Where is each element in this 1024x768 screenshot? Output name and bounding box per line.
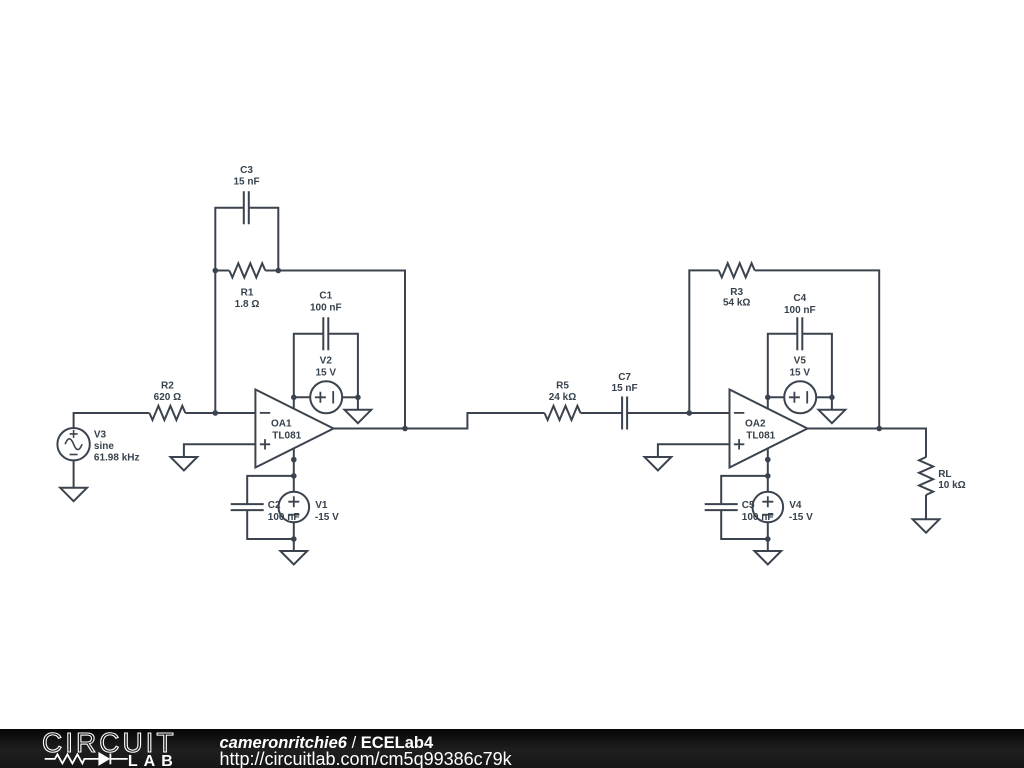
svg-text:C3: C3 [240, 165, 253, 176]
junction node V1 bottom [291, 536, 297, 542]
capacitor C7 [622, 397, 627, 430]
svg-text:24 kΩ: 24 kΩ [549, 392, 576, 403]
voltage source V2 [310, 381, 342, 413]
junction node C2 branch [291, 473, 297, 479]
ground at V3 [60, 488, 87, 501]
junction node OA2 V- stub [765, 457, 771, 463]
ground at V2 [345, 410, 372, 423]
OA2 inverting pin mark [734, 412, 744, 414]
wire C4 loop right [802, 334, 832, 398]
junction node V2 right [355, 395, 361, 401]
junction node V+ stub [291, 395, 297, 401]
label V3 sine 61.98 kHz [94, 429, 140, 463]
wire V2 left lead [294, 396, 310, 398]
junction node at R2 / feedback [213, 410, 219, 416]
resistor RL [919, 457, 933, 495]
ground at V5 [819, 410, 846, 423]
capacitor C1 [323, 317, 328, 350]
wire C7 to OA2 inverting input [627, 412, 729, 414]
capacitor C3 [244, 191, 249, 224]
svg-text:V4: V4 [789, 500, 802, 511]
svg-text:15 V: 15 V [316, 367, 337, 378]
wire V2 right lead [342, 396, 358, 398]
label OA1 TL081 [271, 418, 302, 441]
label V4 -15 V [789, 500, 813, 523]
wire C1 loop left [294, 334, 324, 398]
svg-text:C5: C5 [742, 500, 755, 511]
wire R3 feedback left vertical [689, 270, 718, 413]
svg-text:100 nF: 100 nF [742, 512, 774, 523]
svg-text:sine: sine [94, 441, 114, 452]
wire RL bottom lead [925, 495, 927, 520]
svg-text:100 nF: 100 nF [268, 512, 300, 523]
capacitor C2 [231, 504, 264, 510]
svg-text:TL081: TL081 [746, 430, 775, 441]
wire C5 top branch [721, 476, 768, 504]
wire C2 top branch [247, 476, 294, 504]
wire R5 to C7 [581, 412, 623, 414]
label R1 1.8 ohm [235, 287, 260, 310]
wire OA1 non-inverting input [184, 444, 256, 457]
junction node R1 left [213, 268, 219, 274]
OA1 non-inverting pin mark [260, 439, 270, 449]
wire V2 ground stub [357, 397, 359, 410]
wire V4 top lead [767, 476, 769, 492]
junction node V- stub [291, 457, 297, 463]
svg-text:OA1: OA1 [271, 418, 292, 429]
wire V1 top lead [293, 476, 295, 492]
label OA2 TL081 [745, 418, 776, 441]
wire C1 loop right [328, 334, 358, 398]
label R2 620 ohm [154, 381, 181, 404]
svg-text:61.98 kHz: 61.98 kHz [94, 453, 140, 464]
label C2 100 nF [268, 500, 300, 523]
resistor R2 [149, 406, 185, 420]
ground at OA2 non-inverting [645, 457, 672, 470]
wire C2 bottom branch [247, 510, 294, 539]
svg-text:TL081: TL081 [272, 430, 301, 441]
junction node OA2 V+ stub [765, 395, 771, 401]
wire OA2 output to RL [808, 429, 927, 458]
wire V5 left lead [768, 396, 784, 398]
voltage source V1 [279, 492, 310, 523]
junction node V4 bottom [765, 536, 771, 542]
svg-text:OA2: OA2 [745, 418, 766, 429]
resistor R5 [545, 406, 581, 420]
resistor R3 [719, 263, 755, 277]
label C3 15 nF [233, 165, 259, 188]
wire C4 loop left [768, 334, 798, 398]
CircuitLab logo mark (resistor + diode) [45, 754, 128, 765]
svg-text:RL: RL [938, 469, 951, 480]
svg-text:V3: V3 [94, 429, 107, 440]
wire OA1 output [334, 413, 545, 429]
label C1 100 nF [310, 291, 342, 314]
svg-text:10 kΩ: 10 kΩ [938, 480, 965, 491]
voltage source V5 [784, 381, 816, 413]
label RL 10 kohm [938, 469, 965, 491]
wire C5 bottom branch [721, 510, 768, 539]
svg-text:15 V: 15 V [790, 367, 811, 378]
svg-text:R1: R1 [241, 287, 254, 298]
wire C3 right [249, 208, 278, 271]
svg-text:LAB: LAB [128, 753, 179, 768]
label R5 24 kohm [549, 381, 576, 404]
wire V4 bottom lead [767, 523, 769, 552]
wire R1 right to feedback drop [265, 271, 405, 429]
wire OA2 V- stub [767, 448, 769, 476]
junction node C5 branch [765, 473, 771, 479]
junction node feedback/output [402, 426, 408, 432]
svg-text:C4: C4 [793, 293, 806, 304]
svg-text:100 nF: 100 nF [784, 305, 816, 316]
voltage source V3 (sine) [57, 428, 89, 460]
ground at OA1 non-inverting [171, 457, 198, 470]
wire R3 right to output [755, 270, 880, 428]
wire V3 top lead [74, 413, 150, 428]
svg-text:V5: V5 [794, 356, 807, 367]
svg-text:R3: R3 [730, 287, 743, 298]
OA2 non-inverting pin mark [734, 439, 744, 449]
wire V1 bottom lead [293, 523, 295, 552]
svg-text:15 nF: 15 nF [612, 383, 638, 394]
junction node OA2 input / feedback [687, 410, 693, 416]
junction node R1 right [276, 268, 282, 274]
wire OA1 V+ stub [293, 397, 295, 409]
junction node V5 right [829, 395, 835, 401]
svg-text:C1: C1 [319, 291, 332, 302]
svg-text:V1: V1 [315, 500, 328, 511]
op-amp OA2 [730, 390, 808, 468]
svg-text:C7: C7 [618, 372, 631, 383]
wire R2 to OA1 inverting input [185, 412, 255, 414]
capacitor C4 [797, 317, 802, 350]
op-amp OA1 [255, 390, 333, 468]
footer bar [0, 729, 1024, 768]
junction node OA2 output [876, 426, 882, 432]
wire OA1 V- stub [293, 448, 295, 476]
svg-text:-15 V: -15 V [789, 512, 813, 523]
svg-text:http://circuitlab.com/cm5q9938: http://circuitlab.com/cm5q99386c79k [220, 749, 513, 768]
wire OA2 non-inverting input [658, 444, 730, 457]
svg-text:R2: R2 [161, 381, 174, 392]
ground at V4 [754, 551, 781, 564]
wire V5 right lead [816, 396, 832, 398]
ground at RL [913, 519, 940, 532]
svg-text:100 nF: 100 nF [310, 303, 342, 314]
svg-text:1.8 Ω: 1.8 Ω [235, 299, 260, 310]
label C4 100 nF [784, 293, 816, 316]
label C5 100 nF [742, 500, 774, 523]
voltage source V4 [753, 492, 784, 523]
wire V5 ground stub [831, 397, 833, 410]
OA1 inverting pin mark [260, 412, 270, 414]
label R3 54 kohm [723, 287, 750, 309]
label V2 15 V [316, 356, 337, 379]
svg-text:54 kΩ: 54 kΩ [723, 298, 750, 309]
svg-text:C2: C2 [268, 500, 281, 511]
wire V3 bottom lead [73, 460, 75, 488]
wire feedback left vertical [215, 208, 244, 413]
label C7 15 nF [612, 372, 638, 394]
svg-text:620 Ω: 620 Ω [154, 392, 181, 403]
svg-text:V2: V2 [320, 356, 333, 367]
svg-text:15 nF: 15 nF [233, 177, 259, 188]
ground at V1 [280, 551, 307, 564]
capacitor C5 [705, 504, 738, 510]
wire OA2 V+ stub [767, 397, 769, 409]
resistor R1 [229, 263, 265, 277]
svg-text:-15 V: -15 V [315, 512, 339, 523]
svg-text:R5: R5 [556, 381, 569, 392]
wire R1 left lead [215, 270, 229, 272]
label V5 15 V [790, 356, 811, 379]
label V1 -15 V [315, 500, 339, 523]
